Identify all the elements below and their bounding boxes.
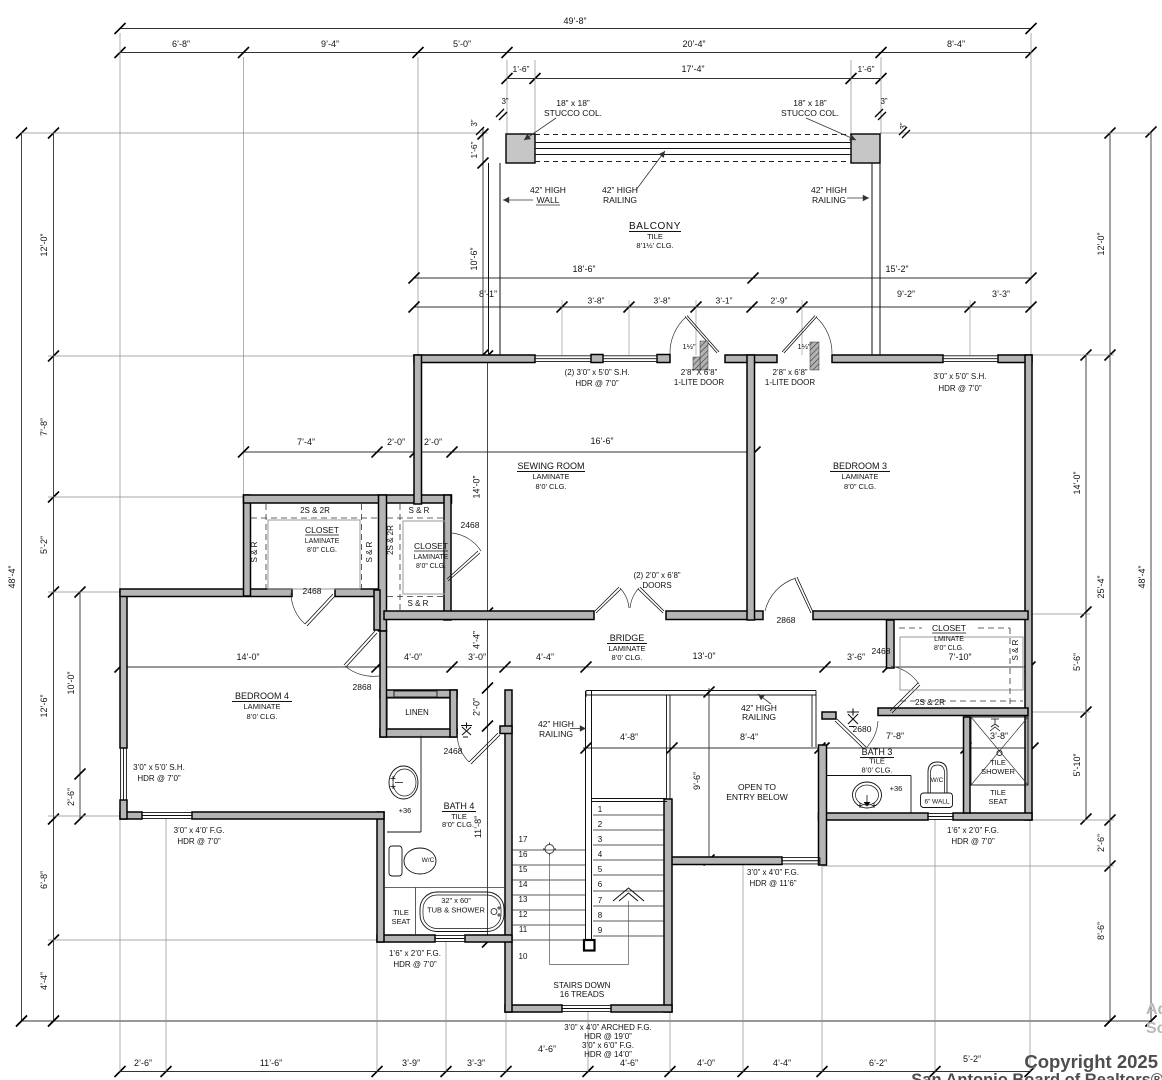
svg-text:LMINATE: LMINATE: [934, 636, 964, 643]
bath 4 west exterior wall: [377, 812, 384, 942]
svg-text:9’-4”: 9’-4”: [321, 39, 339, 49]
svg-text:3’-8”: 3’-8”: [990, 731, 1008, 741]
svg-text:S & R: S & R: [365, 541, 374, 562]
svg-text:3’0” x 4’0’ F.G.: 3’0” x 4’0’ F.G.: [174, 826, 225, 835]
bedroom4 northeast jamb wall: [374, 590, 380, 630]
svg-text:3’0” x 5’0” S.H.: 3’0” x 5’0” S.H.: [934, 372, 987, 381]
svg-text:STAIRS DOWN: STAIRS DOWN: [553, 981, 610, 990]
svg-text:20’-4”: 20’-4”: [682, 39, 705, 49]
svg-text:14’-0”: 14’-0”: [472, 475, 482, 498]
svg-text:9’-2”: 9’-2”: [897, 289, 915, 299]
svg-text:1’6” x 2’0” F.G.: 1’6” x 2’0” F.G.: [389, 949, 441, 958]
svg-text:8’-6”: 8’-6”: [1096, 922, 1106, 940]
right dimension line 12-0/25-4/2-6/8-6: [1109, 133, 1111, 1021]
svg-text:1: 1: [598, 805, 603, 814]
shower wall bath3: [964, 717, 971, 813]
svg-text:3’0” x 6’0” F.G.: 3’0” x 6’0” F.G.: [582, 1041, 634, 1050]
svg-text:TUB & SHOWER: TUB & SHOWER: [427, 906, 486, 915]
bath3 toilet tank / 6in wall: [921, 793, 953, 808]
svg-text:HDR @ 7’0”: HDR @ 7’0”: [393, 960, 437, 969]
svg-text:BRIDGE: BRIDGE: [610, 633, 645, 643]
svg-text:18” x 18”: 18” x 18”: [793, 98, 827, 108]
svg-text:16: 16: [519, 850, 528, 859]
linen closet interior: [387, 698, 450, 729]
svg-text:RAILING: RAILING: [539, 729, 573, 739]
shower head symbol: [990, 719, 1000, 731]
svg-text:4’-0”: 4’-0”: [697, 1058, 715, 1068]
svg-text:LAMINATE: LAMINATE: [842, 472, 879, 481]
svg-text:6’-2”: 6’-2”: [869, 1058, 887, 1068]
balcony door left jamb hatch: [700, 341, 708, 370]
notch wall west of bath3: [819, 745, 827, 865]
svg-text:HDR @ 14’0”: HDR @ 14’0”: [584, 1050, 632, 1059]
stair landing edge: [592, 798, 668, 800]
svg-text:BEDROOM 3: BEDROOM 3: [833, 461, 887, 471]
svg-text:4’-6”: 4’-6”: [620, 1058, 638, 1068]
svg-text:W/C: W/C: [931, 777, 944, 784]
svg-text:3’-1”: 3’-1”: [715, 296, 732, 306]
balcony door left 2-8 1-lite: [670, 317, 686, 354]
horizontal extension lines: [21, 132, 488, 134]
svg-text:8’0” CLG.: 8’0” CLG.: [416, 563, 446, 570]
svg-text:2868: 2868: [777, 615, 796, 625]
svg-text:5’-2”: 5’-2”: [963, 1054, 981, 1064]
svg-text:8’0’ CLG.: 8’0’ CLG.: [247, 712, 278, 721]
svg-text:S & R: S & R: [409, 506, 430, 515]
bath4 tub and shower 32x60: [420, 892, 504, 932]
svg-text:LAMINATE: LAMINATE: [414, 554, 449, 561]
svg-text:2’-9”: 2’-9”: [770, 296, 787, 306]
open area north railing 42in: [586, 690, 816, 692]
svg-text:12’-0”: 12’-0”: [39, 233, 49, 256]
svg-text:6’-8”: 6’-8”: [39, 871, 49, 889]
east exterior wall: [1025, 355, 1032, 820]
svg-text:48’-4”: 48’-4”: [7, 565, 17, 588]
svg-text:8’-4”: 8’-4”: [947, 39, 965, 49]
svg-text:S & R: S & R: [250, 541, 259, 562]
stair newel circle and leaders: [545, 845, 554, 854]
svg-text:1-LITE DOOR: 1-LITE DOOR: [765, 378, 815, 387]
svg-text:1½”: 1½”: [798, 342, 811, 351]
svg-text:2’-6”: 2’-6”: [66, 788, 76, 806]
svg-text:1-LITE DOOR: 1-LITE DOOR: [674, 378, 724, 387]
svg-text:2’8” x 6’8”: 2’8” x 6’8”: [772, 368, 807, 377]
svg-text:WALL: WALL: [537, 195, 560, 205]
bath3 toilet W/C: [928, 762, 947, 793]
svg-text:7’-10”: 7’-10”: [948, 652, 971, 662]
svg-text:CLOSET: CLOSET: [305, 525, 339, 535]
svg-text:15: 15: [519, 865, 528, 874]
svg-text:9’-6”: 9’-6”: [692, 772, 702, 790]
svg-text:2868: 2868: [353, 682, 372, 692]
svg-text:+36: +36: [890, 784, 903, 793]
svg-text:RAILING: RAILING: [812, 195, 846, 205]
svg-text:3’0” x 4’0” F.G.: 3’0” x 4’0” F.G.: [747, 868, 799, 877]
balcony door right jamb hatch: [810, 342, 819, 370]
bedroom 4 west wall with window: [120, 590, 127, 748]
svg-text:2’-6”: 2’-6”: [1096, 834, 1106, 852]
balcony right 42in railing wall: [871, 163, 873, 355]
top dimension row 2: [120, 52, 1031, 54]
svg-text:OPEN TO: OPEN TO: [738, 782, 776, 792]
svg-text:25’-4”: 25’-4”: [1096, 575, 1106, 598]
svg-text:42” HIGH: 42” HIGH: [811, 185, 847, 195]
svg-text:42” HIGH: 42” HIGH: [530, 185, 566, 195]
sewing west wall upper: [414, 355, 422, 504]
svg-text:LAMINATE: LAMINATE: [533, 472, 570, 481]
bridge north wall / sewing south wall: [384, 611, 594, 620]
bedroom 3 window 3-0x5-0: [943, 355, 998, 357]
svg-text:5’-10”: 5’-10”: [1072, 753, 1082, 776]
svg-text:17: 17: [519, 835, 528, 844]
svg-text:2’-0”: 2’-0”: [472, 698, 482, 716]
svg-text:10’-6”: 10’-6”: [469, 247, 479, 270]
bedroom3 closet bottom wall / bath3 north: [878, 708, 1028, 716]
svg-text:8’0” CLG.: 8’0” CLG.: [934, 645, 964, 652]
svg-text:2’-0”: 2’-0”: [387, 437, 405, 447]
svg-text:8’-4”: 8’-4”: [740, 732, 758, 742]
svg-text:Ad: Ad: [1146, 1001, 1162, 1018]
balcony railing lines: [535, 134, 851, 136]
closet1 shelf outline and dashes: [268, 520, 360, 589]
svg-text:HDR @ 7’0”: HDR @ 7’0”: [177, 837, 221, 846]
svg-text:RAILING: RAILING: [603, 195, 637, 205]
svg-text:DOORS: DOORS: [642, 581, 671, 590]
svg-text:6” WALL: 6” WALL: [924, 799, 949, 806]
svg-text:14’-0”: 14’-0”: [1072, 471, 1082, 494]
svg-text:17’-4”: 17’-4”: [681, 64, 704, 74]
svg-text:2468: 2468: [303, 586, 322, 596]
closet2 door 2468: [452, 533, 481, 551]
svg-text:HDR @ 7’0”: HDR @ 7’0”: [951, 837, 995, 846]
svg-text:42” HIGH: 42” HIGH: [538, 719, 574, 729]
svg-text:HDR @ 7’0”: HDR @ 7’0”: [575, 379, 619, 388]
svg-text:13: 13: [519, 895, 528, 904]
svg-text:CLOSET: CLOSET: [932, 623, 966, 633]
svg-text:7’-8”: 7’-8”: [39, 418, 49, 436]
svg-text:SEAT: SEAT: [391, 917, 410, 926]
open area vertical dim 9-6: [708, 688, 710, 860]
bath 4 south wall with window: [377, 935, 435, 942]
svg-text:HDR @ 7’0”: HDR @ 7’0”: [938, 384, 982, 393]
svg-text:2: 2: [598, 820, 603, 829]
divider wall sewing/bedroom3: [747, 355, 755, 620]
svg-text:6’-8”: 6’-8”: [172, 39, 190, 49]
closet block top wall: [244, 495, 452, 503]
svg-text:3’-6”: 3’-6”: [847, 652, 865, 662]
svg-text:8: 8: [598, 911, 603, 920]
svg-text:12: 12: [519, 910, 528, 919]
svg-text:11’-8”: 11’-8”: [473, 816, 483, 838]
bath3 vanity counter: [827, 775, 911, 777]
svg-text:4’-6”: 4’-6”: [538, 1044, 556, 1054]
open area south wall with window: [666, 857, 782, 865]
stucco column right 18x18: [851, 134, 880, 163]
bridge door 2868 to bedroom3: [795, 577, 813, 613]
stairwell east wall: [664, 799, 672, 1012]
svg-text:4’-4”: 4’-4”: [773, 1058, 791, 1068]
svg-text:16’-6”: 16’-6”: [590, 436, 613, 446]
svg-text:1’-6”: 1’-6”: [512, 64, 529, 74]
sewing vertical dim 14-0 / 4-4 / 2-0 / 11-8: [487, 356, 489, 942]
stairwell south wall with arched window: [505, 1005, 562, 1012]
svg-text:5’-6”: 5’-6”: [1072, 653, 1082, 671]
bath4 sink: [389, 766, 418, 799]
svg-text:3”: 3”: [880, 97, 887, 106]
vertical extension lines top: [119, 33, 121, 590]
bedroom3 closet west wall: [887, 620, 895, 668]
svg-text:4’-4”: 4’-4”: [472, 631, 482, 649]
svg-text:8’0” CLG.: 8’0” CLG.: [442, 820, 474, 829]
svg-text:LAMINATE: LAMINATE: [244, 702, 281, 711]
svg-text:4’-0”: 4’-0”: [404, 652, 422, 662]
svg-text:8’1½’ CLG.: 8’1½’ CLG.: [636, 241, 673, 250]
svg-text:3’-8”: 3’-8”: [653, 296, 670, 306]
svg-text:LAMINATE: LAMINATE: [305, 538, 340, 545]
bedroom 4 south wall with window: [120, 812, 142, 819]
stair direction arrow: [613, 888, 644, 901]
svg-text:LINEN: LINEN: [405, 708, 429, 717]
svg-text:3: 3: [598, 835, 603, 844]
stair treads right flight: [593, 814, 664, 816]
svg-text:BATH 3: BATH 3: [862, 747, 893, 757]
svg-text:HDR @ 19’0”: HDR @ 19’0”: [584, 1032, 632, 1041]
svg-text:8’0’ CLG.: 8’0’ CLG.: [536, 482, 567, 491]
bedroom4 entry door 2468: [291, 593, 305, 624]
bath3 sink: [853, 782, 882, 808]
closet 1 west wall: [244, 495, 251, 596]
divider wall between closets: [379, 495, 387, 631]
svg-text:TILE: TILE: [869, 757, 885, 766]
svg-text:CLOSET: CLOSET: [414, 541, 448, 551]
left overall dimension line 48-4: [21, 133, 23, 1021]
bath 3 south wall with window: [819, 813, 929, 820]
svg-text:4’-4”: 4’-4”: [536, 652, 554, 662]
svg-text:15’-2”: 15’-2”: [885, 264, 908, 274]
svg-text:7: 7: [598, 896, 603, 905]
svg-text:42” HIGH: 42” HIGH: [602, 185, 638, 195]
sewing double doors 2-0x6-8: [595, 587, 621, 613]
svg-text:8’0’ CLG.: 8’0’ CLG.: [612, 653, 643, 662]
svg-text:LAMINATE: LAMINATE: [609, 644, 646, 653]
svg-text:7’-8”: 7’-8”: [886, 731, 904, 741]
svg-text:TILE: TILE: [393, 908, 409, 917]
linen closet walls: [380, 690, 457, 698]
svg-text:ENTRY BELOW: ENTRY BELOW: [726, 792, 788, 802]
svg-text:SEAT: SEAT: [988, 797, 1007, 806]
svg-text:2468: 2468: [444, 746, 463, 756]
svg-text:8’0’ CLG.: 8’0’ CLG.: [862, 766, 893, 775]
svg-text:Sc: Sc: [1146, 1020, 1162, 1037]
svg-text:12’-0”: 12’-0”: [1096, 232, 1106, 255]
top exterior wall sewing/bedroom3: [414, 355, 535, 363]
svg-text:2S & 2R: 2S & 2R: [386, 525, 395, 555]
svg-text:10: 10: [519, 952, 528, 961]
svg-text:32” x 60”: 32” x 60”: [441, 896, 471, 905]
stair middle railing: [585, 691, 587, 941]
bath4 door 2468: [457, 734, 469, 762]
top wall feature dim row: [414, 306, 1031, 308]
svg-text:1½”: 1½”: [683, 342, 696, 351]
svg-text:BEDROOM 4: BEDROOM 4: [235, 691, 289, 701]
svg-text:SEWING ROOM: SEWING ROOM: [518, 461, 585, 471]
svg-text:3’0” x 5’0’ S.H.: 3’0” x 5’0’ S.H.: [133, 763, 185, 772]
svg-text:TILE: TILE: [647, 232, 663, 241]
svg-text:5’-0”: 5’-0”: [453, 39, 471, 49]
svg-text:S & R: S & R: [408, 599, 429, 608]
svg-text:5’-2”: 5’-2”: [39, 536, 49, 554]
svg-text:BALCONY: BALCONY: [629, 221, 681, 232]
svg-text:3’-3”: 3’-3”: [467, 1058, 485, 1068]
svg-text:4’-8”: 4’-8”: [620, 732, 638, 742]
svg-text:San Antonio Board of Realtors®: San Antonio Board of Realtors®: [911, 1071, 1162, 1080]
left dimension segments line: [53, 133, 55, 1021]
svg-text:2S & 2R: 2S & 2R: [300, 506, 330, 515]
vertical extension lines bottom: [119, 819, 121, 1072]
svg-text:5: 5: [598, 865, 603, 874]
svg-text:48’-4”: 48’-4”: [1137, 565, 1147, 588]
bedroom3 closet door 2468: [890, 683, 920, 713]
svg-text:3’0” x 4’0” ARCHED F.G.: 3’0” x 4’0” ARCHED F.G.: [564, 1023, 652, 1032]
bath4 attic access symbol: [461, 723, 472, 738]
svg-text:2680: 2680: [853, 724, 872, 734]
svg-text:14’-0”: 14’-0”: [236, 652, 259, 662]
sewing room windows (2) 3-0x5-0: [535, 355, 591, 357]
bedroom3 closet shelf outline and dashes: [900, 637, 1023, 690]
svg-text:16 TREADS: 16 TREADS: [560, 990, 605, 999]
stucco column left 18x18: [506, 134, 535, 163]
svg-text:9: 9: [598, 926, 603, 935]
svg-text:2’8” X 6’8”: 2’8” X 6’8”: [681, 368, 718, 377]
balcony left 42in wall: [488, 163, 490, 355]
svg-text:2468: 2468: [872, 646, 891, 656]
svg-text:3’-0”: 3’-0”: [468, 652, 486, 662]
svg-text:4: 4: [598, 850, 603, 859]
balcony vertical dim 1-6 / 10-6: [482, 128, 484, 355]
svg-text:2S & 2R: 2S & 2R: [915, 698, 945, 707]
closet2 shelf outline and dashes: [403, 521, 445, 594]
sewing west wall lower: [444, 495, 451, 620]
right overall dimension line 48-4: [1150, 132, 1152, 1021]
bath3 tile shower: [971, 717, 1028, 785]
right dimension line 14-0/5-6/5-10: [1085, 355, 1087, 819]
svg-text:Copyright 2025: Copyright 2025: [1024, 1051, 1158, 1072]
svg-text:10’-0”: 10’-0”: [66, 671, 76, 694]
svg-text:2’-6”: 2’-6”: [134, 1058, 152, 1068]
hall dim row 14-0 / 4-0 / 3-0 / 4-4 / 13-0 / 3-6 / 7-10: [120, 666, 1030, 668]
overall top dimension line 49-8: [120, 28, 1031, 30]
stair east railing: [666, 695, 668, 799]
svg-text:S & R: S & R: [1011, 639, 1020, 660]
svg-text:11: 11: [519, 925, 528, 934]
open area east railing: [811, 695, 813, 747]
svg-text:3’-8”: 3’-8”: [587, 296, 604, 306]
left inner dimension line 10-0 / 2-6: [79, 592, 81, 819]
bath4 vanity counter: [420, 736, 422, 832]
svg-text:3’-3”: 3’-3”: [992, 289, 1010, 299]
svg-text:18” x 18”: 18” x 18”: [556, 98, 590, 108]
svg-text:1’-6”: 1’-6”: [469, 141, 479, 158]
svg-text:HDR @ 7’0”: HDR @ 7’0”: [137, 774, 181, 783]
svg-text:13’-0”: 13’-0”: [692, 651, 715, 661]
bath4 toilet W/C: [389, 846, 402, 876]
svg-text:18’-6”: 18’-6”: [572, 264, 595, 274]
stair treads left flight: [512, 849, 586, 851]
bath3 attic access symbol: [847, 709, 859, 727]
balcony interior dim row 18-6 / 15-2: [414, 277, 1031, 279]
closet block dim row 7-4 / 2-0 / 2-0 / 16-6: [244, 451, 756, 453]
bedroom4 corner door 2868: [344, 631, 377, 667]
dimension baseline y1021: [22, 1020, 1152, 1022]
svg-text:3’-9”: 3’-9”: [402, 1058, 420, 1068]
svg-text:1’-6”: 1’-6”: [857, 64, 874, 74]
svg-text:4’-4”: 4’-4”: [39, 972, 49, 990]
svg-text:RAILING: RAILING: [742, 712, 776, 722]
svg-text:2468: 2468: [461, 520, 480, 530]
svg-text:2’-0”: 2’-0”: [424, 437, 442, 447]
svg-text:11’-6”: 11’-6”: [260, 1058, 282, 1068]
svg-text:3”: 3”: [899, 122, 908, 129]
svg-text:BATH 4: BATH 4: [444, 801, 475, 811]
svg-text:1’6” x 2’0” F.G.: 1’6” x 2’0” F.G.: [947, 826, 999, 835]
svg-text:TILE: TILE: [990, 788, 1006, 797]
svg-text:3”: 3”: [470, 119, 479, 126]
svg-text:STUCCO COL.: STUCCO COL.: [544, 108, 602, 118]
svg-text:8’0” CLG.: 8’0” CLG.: [844, 482, 876, 491]
svg-text:HDR @ 11’6”: HDR @ 11’6”: [749, 879, 796, 888]
svg-text:8’0” CLG.: 8’0” CLG.: [307, 547, 337, 554]
svg-text:12’-6”: 12’-6”: [39, 694, 49, 717]
bath3 door 2680: [835, 719, 866, 749]
bottom dimension line y1071: [120, 1071, 1030, 1073]
balcony door right 2-8 1-lite: [816, 317, 832, 354]
svg-text:TILE: TILE: [990, 758, 1006, 767]
stair dim row 4-8 / 8-4 / 7-8 / 3-8: [583, 747, 1033, 749]
bedroom 4 north wall with door opening: [120, 589, 292, 597]
svg-text:14: 14: [519, 880, 528, 889]
svg-text:7’-4”: 7’-4”: [297, 437, 315, 447]
balcony dimension row 17-4: [507, 78, 881, 80]
svg-text:6: 6: [598, 880, 603, 889]
svg-text:STUCCO COL.: STUCCO COL.: [781, 108, 839, 118]
svg-text:W/C: W/C: [422, 857, 435, 864]
svg-text:SHOWER: SHOWER: [981, 767, 1015, 776]
svg-text:(2) 2’0” x 6’8”: (2) 2’0” x 6’8”: [633, 571, 680, 580]
svg-text:3”: 3”: [501, 97, 508, 106]
svg-text:49’-8”: 49’-8”: [563, 16, 586, 26]
svg-text:(2) 3’0” x 5’0” S.H.: (2) 3’0” x 5’0” S.H.: [565, 368, 630, 377]
stairwell west wall: [505, 690, 512, 1012]
svg-text:+36: +36: [399, 806, 412, 815]
